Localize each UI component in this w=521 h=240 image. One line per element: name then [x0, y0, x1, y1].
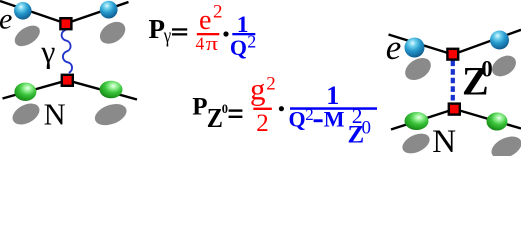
quark ball (left diagram, left green) — [14, 83, 36, 101]
svg-text:0: 0 — [222, 102, 228, 116]
svg-text:4: 4 — [196, 34, 205, 54]
vertex square top (left diagram) — [60, 18, 71, 29]
wire: right diagram nucleon line (incoming) — [391, 109, 455, 130]
svg-text:e: e — [199, 5, 211, 36]
svg-text:P: P — [149, 14, 166, 44]
vertex square bottom (left diagram) — [62, 75, 73, 86]
svg-text:e: e — [386, 28, 402, 67]
wire: right diagram nucleon line (outgoing) — [455, 109, 521, 129]
svg-text:2: 2 — [247, 32, 256, 52]
electron ball (left diagram, left) — [14, 2, 32, 20]
quark ball (left diagram, right green) — [100, 81, 123, 99]
svg-text:π: π — [206, 34, 219, 55]
svg-text:g: g — [250, 71, 266, 106]
wire: right diagram electron line (outgoing) — [453, 30, 521, 55]
shadow ellipse top-left (left diagram) — [11, 21, 43, 50]
svg-text:2: 2 — [266, 73, 276, 94]
formula 1: equals sign — [172, 28, 187, 30]
svg-text:2: 2 — [305, 105, 314, 124]
quark ball (right diagram, right green) — [487, 113, 508, 131]
shadow ellipse bottom-right (right diagram) — [488, 132, 521, 163]
shadow ellipse bottom-left (left diagram) — [9, 99, 43, 129]
wire: left diagram electron line (incoming, top-left) — [0, 1, 66, 24]
shadow ellipse top-left (right diagram) — [401, 53, 435, 84]
formula 2: multiplication dot — [279, 106, 284, 111]
vertex square top (right diagram) — [447, 49, 458, 60]
wire: left diagram nucleon line (outgoing, bottom-right) — [67, 80, 137, 99]
photon wavy line (gamma propagator) — [62, 30, 72, 73]
formula 1: red fraction bar — [197, 33, 220, 35]
shadow ellipse bottom-right (left diagram) — [92, 100, 130, 129]
svg-text:2: 2 — [213, 2, 223, 23]
svg-text:2: 2 — [256, 110, 269, 137]
quark ball (right diagram, left green) — [405, 112, 429, 130]
svg-text:e: e — [0, 3, 12, 36]
vertex square bottom (right diagram) — [449, 104, 460, 115]
svg-text:Q: Q — [230, 35, 247, 60]
shadow ellipse bottom-left (right diagram) — [399, 130, 432, 158]
electron ball (left diagram, right) — [100, 1, 118, 19]
shadow ellipse top-right (left diagram) — [96, 17, 129, 48]
svg-text:0: 0 — [362, 117, 372, 138]
electron ball (right diagram, left) — [405, 38, 425, 58]
shadow ellipse top-right (right diagram) — [488, 51, 520, 80]
wire: left diagram nucleon line (incoming, bottom-left) — [3, 80, 68, 98]
svg-text:M: M — [324, 106, 345, 131]
svg-text:N: N — [44, 97, 66, 131]
formula 1: blue fraction bar — [232, 33, 255, 35]
formula 2: blue fraction bar — [290, 107, 377, 110]
electron ball (right diagram, right) — [490, 31, 509, 50]
svg-text:γ: γ — [40, 33, 55, 69]
wire: right diagram electron line (incoming) — [389, 35, 453, 55]
svg-text:N: N — [432, 124, 456, 156]
formula 2: equals sign — [229, 109, 243, 111]
svg-text:P: P — [192, 94, 207, 121]
formula 2: red fraction bar — [253, 108, 271, 110]
svg-text:Z: Z — [207, 103, 223, 134]
Z boson dashed propagator — [451, 61, 455, 104]
svg-text:γ: γ — [163, 24, 171, 47]
svg-text:Q: Q — [289, 106, 306, 131]
formula 2: minus sign (blue) — [314, 119, 323, 122]
wire: left diagram electron line (outgoing, top-right) — [66, 2, 129, 24]
svg-text:0: 0 — [481, 57, 493, 82]
formula 1: multiplication dot — [223, 31, 228, 36]
